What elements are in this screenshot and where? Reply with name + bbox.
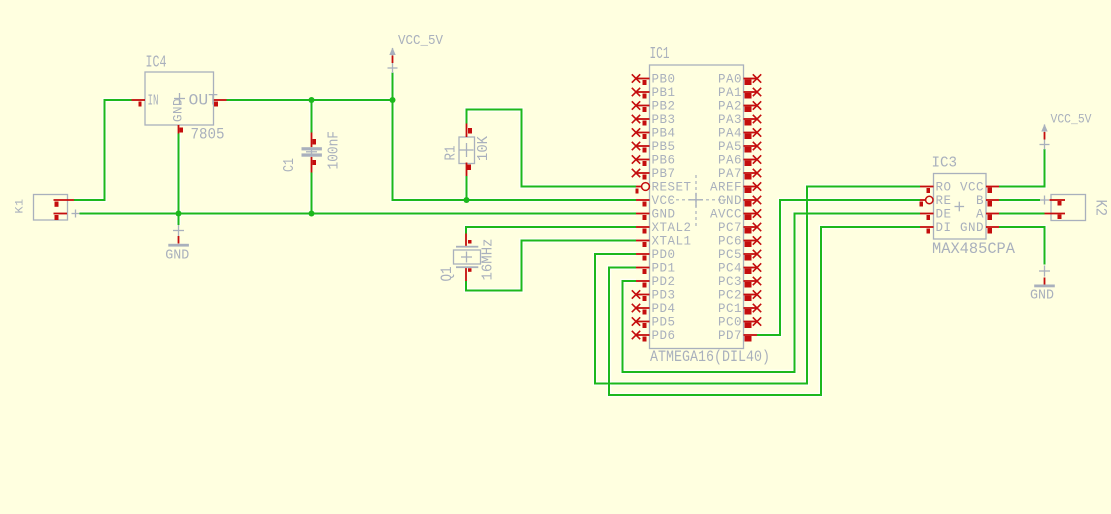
wire IC1 PD0 horizontal segment (crossing patch) [602, 383, 617, 385]
svg-text:MAX485CPA: MAX485CPA [932, 240, 1016, 258]
svg-text:IC3: IC3 [932, 156, 958, 172]
IC1 pin PD7 right [718, 329, 757, 343]
IC1 pin RESET (inverting circle) [636, 181, 692, 195]
IC1 pin PC3 right (no connect) [718, 275, 761, 289]
IC1 pin PA2 right (no connect) [718, 100, 761, 114]
IC1 pin PA0 right (no connect) [718, 73, 761, 87]
IC1 pin PB0 (no connect) [632, 73, 676, 87]
node junction VCC_5V/OUT [390, 97, 396, 103]
IC1 pin PB6 (no connect) [632, 154, 676, 168]
svg-text:PD3: PD3 [652, 289, 676, 303]
op-amp U1 body: IC1 ATMEGA16 box [650, 65, 744, 349]
svg-text:PC0: PC0 [718, 316, 742, 330]
wire R1 bottom to VCC rail [464, 176, 469, 200]
IC3 pin VCC right [960, 181, 999, 195]
IC3 pin GND right [960, 221, 999, 235]
svg-text:PB1: PB1 [652, 86, 676, 100]
label 10K [476, 136, 492, 161]
IC1 pin PD3 (no connect) [632, 289, 676, 303]
svg-text:PB3: PB3 [652, 113, 676, 127]
label GND (right) [1030, 289, 1054, 304]
IC1 pin PB1 (no connect) [632, 86, 676, 100]
IC1 pin PA7 right (no connect) [718, 167, 761, 181]
wire IC3 B to K2 pin1 [999, 198, 1040, 203]
crystal Q1 [454, 234, 481, 282]
node junction R1/VCC rail [464, 197, 470, 203]
svg-text:PC1: PC1 [718, 302, 742, 316]
svg-text:GND: GND [172, 98, 186, 122]
label C1 [281, 158, 298, 172]
wire VCC_5V left drop and VCC rail to IC1 VCC [393, 73, 637, 201]
IC1 pin GND right (no connect) [718, 194, 761, 208]
IC3 pin RE (inverting circle) [920, 194, 952, 208]
wire K1 pin1 to IC4 IN [74, 100, 132, 200]
svg-text:PC5: PC5 [718, 248, 742, 262]
svg-text:PB4: PB4 [652, 127, 676, 141]
IC1 pin PA5 right (no connect) [718, 140, 761, 154]
ground symbol (right) [1034, 266, 1055, 288]
label VCC_5V (right) [1051, 113, 1092, 127]
svg-text:GND: GND [1030, 289, 1054, 304]
svg-text:PA5: PA5 [718, 140, 742, 154]
label GND (left) [165, 249, 189, 264]
svg-text:PA0: PA0 [718, 73, 742, 87]
connector K1 [34, 195, 80, 221]
svg-text:10K: 10K [476, 136, 492, 161]
IC1 pin PB7 (no connect) [632, 167, 676, 181]
IC3 pin DE [920, 208, 952, 222]
IC1 pin PB4 (no connect) [632, 127, 676, 141]
IC1 pin PC1 right (no connect) [718, 302, 761, 316]
svg-text:PC7: PC7 [718, 221, 742, 235]
svg-text:IC1: IC1 [650, 44, 670, 63]
IC1 pin PA1 right (no connect) [718, 86, 761, 100]
svg-text:16MHz: 16MHz [480, 239, 497, 281]
label K1 [15, 199, 27, 214]
wire IC4 OUT to VCC node [227, 98, 393, 103]
svg-text:PD4: PD4 [652, 302, 676, 316]
wire R1 top to IC1 RESET [467, 110, 637, 187]
svg-text:VCC: VCC [652, 194, 676, 208]
svg-text:RE: RE [936, 194, 952, 208]
wire GND rail K1 pin2 to IC1 GND [80, 211, 637, 216]
IC1 pin PC5 right (no connect) [718, 248, 761, 262]
label 7805 [191, 126, 225, 144]
IC1 pin XTAL1 [636, 235, 692, 249]
node junction GND rail/IC4 GND [176, 211, 182, 217]
IC1 pin PC7 right (no connect) [718, 221, 761, 235]
svg-text:PC3: PC3 [718, 275, 742, 289]
IC1 pin PC4 right (no connect) [718, 262, 761, 276]
svg-text:XTAL2: XTAL2 [652, 221, 692, 235]
svg-text:PB7: PB7 [652, 167, 676, 181]
voltage regulator IC4 (7805) [132, 72, 227, 134]
label 100nF [326, 131, 343, 170]
svg-text:DI: DI [936, 221, 952, 235]
wire IC1 PD2 to IC3 DE [623, 214, 921, 373]
label MAX485CPA [932, 240, 1016, 258]
wire IC4 GND down to ground [176, 134, 181, 226]
label K2 [1092, 200, 1110, 217]
wire Q1 bottom to IC1 XTAL1 [466, 241, 636, 291]
label IC1 [650, 44, 670, 63]
IC1 pin PD2 [636, 275, 676, 289]
svg-text:PC2: PC2 [718, 289, 742, 303]
label IC3 [932, 156, 958, 172]
svg-text:PA3: PA3 [718, 113, 742, 127]
wire IC3 VCC to VCC_5V right [999, 149, 1045, 187]
svg-text:PB2: PB2 [652, 100, 676, 114]
svg-text:XTAL1: XTAL1 [652, 235, 692, 249]
node junction VCC/C1 top [309, 97, 315, 103]
node junction C1 bottom/GND rail [309, 211, 315, 217]
svg-text:PD5: PD5 [652, 316, 676, 330]
svg-text:PA7: PA7 [718, 167, 742, 181]
resistor R1 [459, 124, 475, 177]
svg-text:PB6: PB6 [652, 154, 676, 168]
svg-text:VCC_5V: VCC_5V [1051, 113, 1092, 127]
svg-text:PB0: PB0 [652, 73, 676, 87]
svg-text:PC6: PC6 [718, 235, 742, 249]
wire IC1 XTAL2 to Q1 top [466, 227, 636, 234]
IC3 pin A right [976, 208, 999, 222]
svg-text:GND: GND [652, 208, 676, 222]
label ATMEGA16(DIL40) [650, 348, 770, 366]
IC1 pin PC0 right (no connect) [718, 316, 761, 330]
IC3 pin RO [920, 181, 952, 195]
IC3 pin DI [920, 221, 952, 235]
capacitor C1 [302, 133, 322, 173]
svg-text:ATMEGA16(DIL40): ATMEGA16(DIL40) [650, 348, 770, 366]
svg-text:VCC: VCC [960, 181, 984, 195]
wire C1 top [309, 100, 314, 133]
wire IC1 PD0 to IC3 RO [595, 187, 920, 384]
svg-text:OUT: OUT [189, 92, 219, 110]
IC1 pin PA4 right (no connect) [718, 127, 761, 141]
IC1 pin PD1 [636, 262, 676, 276]
label 16MHZ [480, 239, 497, 281]
svg-text:PA6: PA6 [718, 154, 742, 168]
wire IC1 PD7 to IC3 RE [757, 200, 920, 335]
svg-text:GND: GND [718, 194, 742, 208]
IC1 pin PA6 right (no connect) [718, 154, 761, 168]
svg-text:PD2: PD2 [652, 275, 676, 289]
svg-text:DE: DE [936, 208, 952, 222]
IC IC3 MAX485 body [934, 174, 987, 240]
svg-text:PB5: PB5 [652, 140, 676, 154]
wire C1 bottom to GND rail [309, 173, 314, 214]
svg-text:B: B [976, 194, 984, 208]
label Q1 [438, 267, 456, 282]
svg-text:PC4: PC4 [718, 262, 742, 276]
IC3 pin B right [976, 194, 999, 208]
IC1 pin PB5 (no connect) [632, 140, 676, 154]
supply VCC_5V (right) [1040, 124, 1050, 150]
IC1 pin GND [636, 208, 676, 222]
svg-text:K2: K2 [1092, 200, 1110, 217]
IC1 pin AVCC right (no connect) [710, 208, 761, 222]
svg-text:PD6: PD6 [652, 329, 676, 343]
IC1 pin PB3 (no connect) [632, 113, 676, 127]
IC1 pin PD4 (no connect) [632, 302, 676, 316]
svg-text:A: A [976, 208, 984, 222]
svg-text:C1: C1 [281, 158, 298, 172]
IC1 pin PD5 (no connect) [632, 316, 676, 330]
svg-text:PA1: PA1 [718, 86, 742, 100]
label R1 [444, 146, 460, 161]
svg-text:PD0: PD0 [652, 248, 676, 262]
svg-text:VCC_5V: VCC_5V [398, 34, 444, 49]
IC1 pin PA3 right (no connect) [718, 113, 761, 127]
IC1 pin PC2 right (no connect) [718, 289, 761, 303]
label IC4 [146, 53, 167, 72]
svg-text:7805: 7805 [191, 126, 225, 144]
svg-text:PA2: PA2 [718, 100, 742, 114]
IC1 pin XTAL2 [636, 221, 692, 235]
IC1 pin PD6 (no connect) [632, 329, 676, 343]
wire IC1 PD0 vertical segment (crossing patch) [806, 193, 808, 221]
svg-text:IN: IN [148, 93, 159, 110]
svg-text:100nF: 100nF [326, 131, 343, 170]
IC1 pin VCC [636, 194, 676, 208]
IC1 pin PC6 right (no connect) [718, 235, 761, 249]
ground symbol (left) [168, 225, 189, 247]
svg-text:Q1: Q1 [438, 267, 456, 282]
svg-text:R1: R1 [444, 146, 460, 161]
wire IC3 GND to ground right [999, 227, 1045, 265]
svg-text:PD7: PD7 [718, 329, 742, 343]
svg-text:PD1: PD1 [652, 262, 676, 276]
svg-text:GND: GND [165, 249, 189, 264]
svg-text:GND: GND [960, 221, 984, 235]
svg-text:RO: RO [936, 181, 952, 195]
IC1 pin PD0 [636, 248, 676, 262]
IC1 pin AREF right (no connect) [710, 181, 761, 195]
IC1 pin PB2 (no connect) [632, 100, 676, 114]
svg-text:AVCC: AVCC [710, 208, 742, 222]
wire IC3 A to K2 pin2 [999, 211, 1045, 216]
svg-text:IC4: IC4 [146, 53, 167, 72]
svg-text:PA4: PA4 [718, 127, 742, 141]
label VCC_5V (left) [398, 34, 444, 49]
connector K2 [1040, 195, 1086, 221]
svg-text:AREF: AREF [710, 181, 742, 195]
supply VCC_5V (left) [388, 48, 398, 74]
svg-text:K1: K1 [15, 199, 27, 214]
wire IC1 PD1 to IC3 DI [609, 227, 920, 395]
svg-text:RESET: RESET [652, 181, 692, 195]
